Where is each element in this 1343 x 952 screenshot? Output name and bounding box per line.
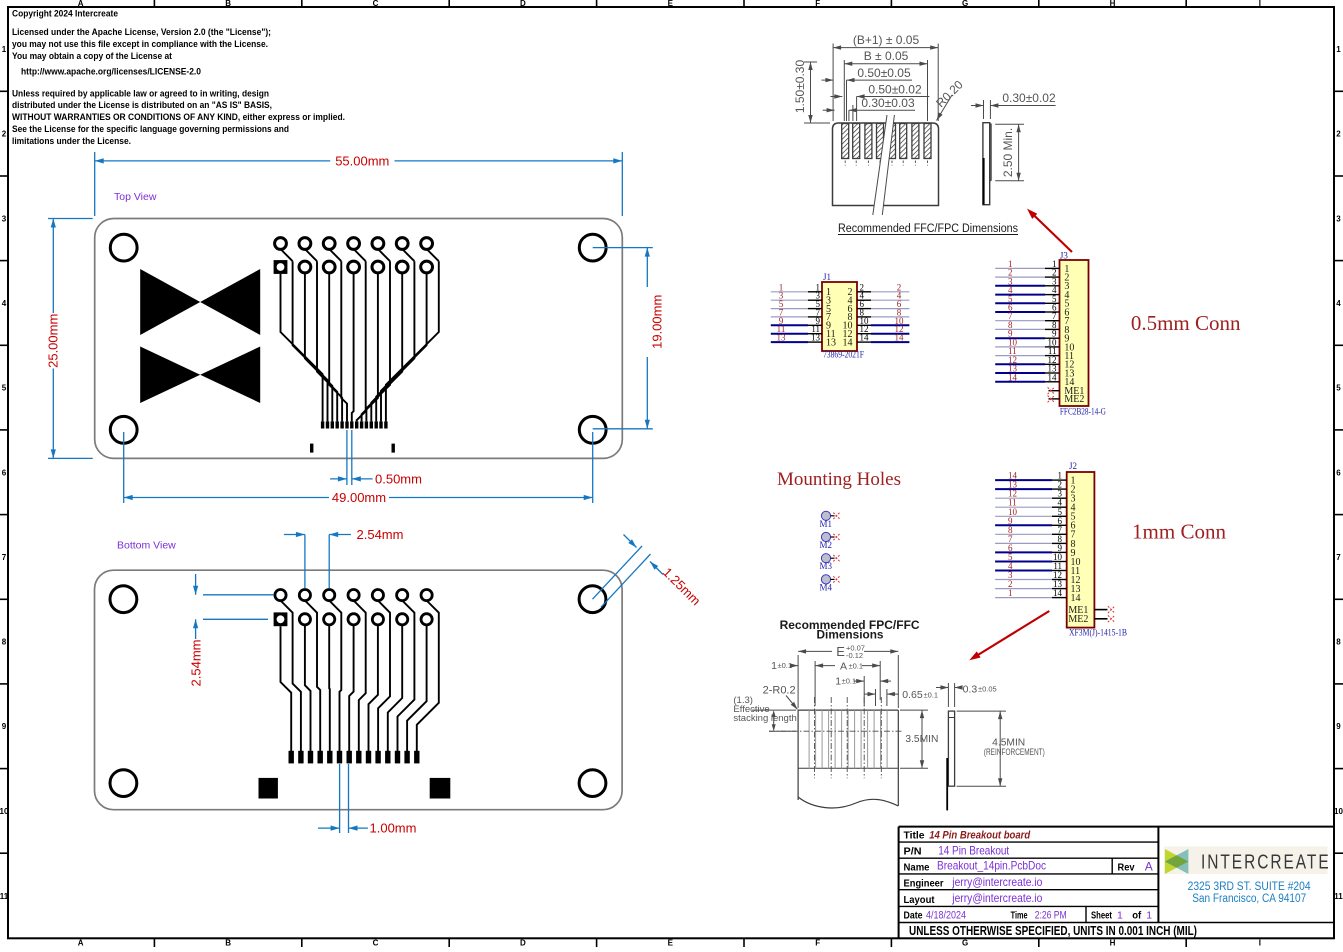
- svg-text:14: 14: [895, 333, 905, 343]
- svg-text:Engineer: Engineer: [904, 878, 944, 890]
- J2 pin 2 wire (net 13): [995, 480, 1075, 496]
- svg-text:7: 7: [2, 553, 7, 562]
- svg-text:2325 3RD ST. SUITE #204: 2325 3RD ST. SUITE #204: [1188, 881, 1312, 893]
- svg-text:2.54mm: 2.54mm: [189, 640, 204, 687]
- J2 pin ME1 (no connect): [1068, 605, 1114, 616]
- svg-text:9: 9: [2, 722, 7, 731]
- svg-text:73869-2021F: 73869-2021F: [823, 349, 864, 359]
- svg-text:1.50±0.30: 1.50±0.30: [793, 60, 807, 114]
- J2 pin 1 wire (net 14): [995, 471, 1075, 487]
- dimension 1 +/- 0.1 (second): [835, 676, 891, 707]
- svg-text:Copyright 2024 Intercreate: Copyright 2024 Intercreate: [12, 9, 118, 19]
- svg-text:11: 11: [1334, 892, 1343, 901]
- dimension 2.54mm (left, bottom view): [189, 574, 275, 686]
- svg-text:Title: Title: [904, 829, 925, 841]
- svg-text:0.3: 0.3: [963, 683, 978, 695]
- dimension 1.25mm (diagonal, bottom view): [593, 535, 704, 609]
- J1 pin 7 wire (left): [771, 307, 831, 323]
- svg-text:9: 9: [1336, 722, 1341, 731]
- dimension 0.30 +/- 0.02 (side): [971, 91, 1056, 119]
- J1 pin 1 wire (left): [771, 282, 831, 298]
- svg-text:Name: Name: [904, 861, 930, 873]
- J3 pin 12 wire: [995, 355, 1074, 371]
- svg-text:0.50±0.05: 0.50±0.05: [857, 66, 911, 80]
- J3 pin 14 wire: [995, 372, 1074, 388]
- svg-text:14: 14: [1048, 372, 1058, 382]
- dimension B +/- 0.05: [844, 49, 927, 121]
- bottom view pad row 1 (circles): [275, 590, 432, 601]
- svg-text:13: 13: [811, 333, 821, 343]
- J1 pin 4 wire (right): [848, 291, 910, 307]
- J2 pin 12 wire (net 3): [995, 570, 1080, 586]
- svg-text:(B+1) ± 0.05: (B+1) ± 0.05: [853, 33, 920, 47]
- svg-text:2: 2: [2, 130, 7, 139]
- svg-text:jerry@intercreate.io: jerry@intercreate.io: [951, 891, 1042, 905]
- svg-text:2.50 Min.: 2.50 Min.: [1001, 128, 1015, 177]
- J3 pin 8 wire: [995, 320, 1069, 336]
- svg-text:M1: M1: [820, 519, 833, 529]
- FFC hatched contact fingers: [842, 124, 931, 166]
- svg-text:INTERCREATE: INTERCREATE: [1201, 851, 1331, 874]
- mounting hole symbol M2: [820, 532, 840, 550]
- top view trace fan: [281, 249, 439, 421]
- svg-text:13: 13: [826, 337, 836, 348]
- svg-text:8: 8: [1336, 638, 1341, 647]
- svg-text:A: A: [840, 661, 847, 673]
- svg-text:(REINFORCEMENT): (REINFORCEMENT): [984, 747, 1045, 757]
- dimension R0.20: [933, 77, 966, 120]
- svg-text:G: G: [962, 939, 968, 948]
- svg-text:H: H: [1110, 939, 1116, 948]
- svg-text:Sheet: Sheet: [1091, 909, 1112, 921]
- svg-text:UNLESS OTHERWISE SPECIFIED, UN: UNLESS OTHERWISE SPECIFIED, UNITS IN 0.0…: [909, 923, 1197, 938]
- title block: P/N row: [904, 843, 1010, 857]
- bottom view board outline: [95, 570, 623, 810]
- svg-text:2.54mm: 2.54mm: [357, 527, 404, 542]
- svg-text:1: 1: [835, 676, 841, 688]
- svg-text:10: 10: [0, 807, 9, 816]
- dimension 1.50 +/- 0.30: [793, 60, 830, 123]
- intercreate address: [1188, 881, 1312, 905]
- svg-text:Dimensions: Dimensions: [817, 630, 884, 642]
- dimension 0.50mm: [330, 430, 422, 486]
- J2 pin 6 wire (net 9): [995, 516, 1075, 532]
- dimension 0.50 +/- 0.05: [822, 66, 913, 121]
- svg-text:C: C: [373, 0, 379, 8]
- top view fiducial bar right: [392, 444, 395, 453]
- dimension 2-R0.2: [763, 685, 798, 710]
- dimension 4.5MIN (REINFORCEMENT): [957, 711, 1045, 786]
- svg-text:D: D: [520, 0, 526, 8]
- J2 pin ME2 (no connect): [1068, 614, 1114, 625]
- svg-text:-0.12: -0.12: [846, 651, 863, 660]
- svg-text:1mm Conn: 1mm Conn: [1132, 520, 1226, 544]
- J1 pin 8 wire (right): [848, 307, 910, 323]
- svg-text:1: 1: [1336, 45, 1341, 54]
- svg-text:10: 10: [1334, 807, 1343, 816]
- title block: Layout row: [904, 891, 1043, 906]
- svg-text:B: B: [225, 939, 231, 948]
- J1 pin 14 wire (right): [843, 333, 910, 349]
- svg-text:E: E: [836, 644, 845, 659]
- J3 pin 1 wire: [995, 259, 1069, 275]
- svg-text:11: 11: [0, 892, 9, 901]
- svg-text:5: 5: [2, 384, 7, 393]
- svg-text:Top View: Top View: [114, 191, 157, 203]
- J2 pin 9 wire (net 6): [995, 543, 1075, 559]
- FFC side view strip: [983, 123, 991, 205]
- J3 pin 11 wire: [995, 346, 1074, 362]
- J1 pin 10 wire (right): [843, 316, 910, 332]
- J3 pin 9 wire: [995, 329, 1069, 345]
- svg-text:4/18/2024: 4/18/2024: [926, 909, 966, 921]
- top view mounting hole bottom-left: [110, 416, 137, 443]
- connector J2 symbol body: [1067, 472, 1095, 628]
- svg-text:E: E: [668, 0, 674, 8]
- svg-text:stacking length: stacking length: [733, 713, 796, 724]
- J3 pin 5 wire: [995, 294, 1069, 310]
- svg-text:Unless required by applicable: Unless required by applicable law or agr…: [12, 88, 269, 98]
- dimension 2.54mm (top, bottom view): [284, 527, 404, 589]
- svg-text:1: 1: [1008, 588, 1013, 598]
- svg-text:14: 14: [1071, 593, 1081, 604]
- svg-text:C: C: [373, 939, 379, 948]
- svg-text:2:26 PM: 2:26 PM: [1035, 909, 1067, 921]
- top view fiducial bar left: [310, 444, 313, 453]
- svg-text:5: 5: [1336, 384, 1341, 393]
- FPC drawing caption: [780, 620, 920, 642]
- svg-text:ME2: ME2: [1064, 394, 1084, 405]
- svg-text:WITHOUT WARRANTIES OR CONDITIO: WITHOUT WARRANTIES OR CONDITIONS OF ANY …: [12, 112, 345, 122]
- dimension 0.50 +/- 0.02: [830, 83, 929, 122]
- top view board outline: [95, 219, 623, 459]
- svg-text:Breakout_14pin.PcbDoc: Breakout_14pin.PcbDoc: [937, 859, 1046, 873]
- svg-text:6: 6: [2, 468, 7, 477]
- FFC drawing caption: [838, 223, 1018, 235]
- dimension 0.65 +/- 0.1: [865, 689, 939, 706]
- J1 pin 3 wire (left): [771, 291, 831, 307]
- svg-text:J1: J1: [823, 272, 831, 282]
- top view pad row 2: square pin-1 pad: [274, 260, 288, 274]
- dimension 0.30 +/- 0.03: [823, 96, 915, 121]
- svg-text:M3: M3: [820, 561, 833, 571]
- bottom view mounting hole bottom-right: [579, 770, 606, 797]
- svg-text:You may obtain a copy of the L: You may obtain a copy of the License at: [12, 51, 172, 61]
- svg-text:14: 14: [1053, 588, 1063, 598]
- svg-text:1: 1: [771, 660, 777, 672]
- dimension 1 +/- 0.1 (left): [771, 660, 798, 672]
- svg-text:3: 3: [1336, 214, 1341, 223]
- FPC conductor lines: [769, 697, 902, 778]
- svg-text:Bottom View: Bottom View: [117, 540, 176, 552]
- svg-text:M2: M2: [820, 540, 833, 550]
- J2 pin 7 wire (net 8): [995, 525, 1075, 541]
- svg-text:0.50mm: 0.50mm: [375, 471, 422, 486]
- mounting hole symbol M1: [820, 511, 840, 529]
- svg-text:14: 14: [843, 337, 853, 348]
- bottom view big square pad left: [259, 778, 278, 799]
- J2 pin 4 wire (net 11): [995, 498, 1075, 514]
- svg-text:4: 4: [2, 299, 7, 308]
- dimension 55.00mm: [95, 152, 623, 216]
- FFC cable body (top right drawing): [833, 123, 939, 206]
- dimension 1.00mm (bottom view): [318, 764, 416, 836]
- svg-text:0.30±0.03: 0.30±0.03: [861, 96, 915, 110]
- svg-text:B: B: [225, 0, 231, 8]
- svg-text:jerry@intercreate.io: jerry@intercreate.io: [951, 875, 1042, 889]
- svg-text:1: 1: [1146, 909, 1152, 921]
- svg-text:Layout: Layout: [904, 894, 935, 906]
- FPC side view strip: [947, 711, 954, 810]
- svg-text:±0.1: ±0.1: [849, 662, 864, 671]
- svg-text:1: 1: [2, 45, 7, 54]
- J2 pin 13 wire (net 2): [995, 579, 1080, 595]
- J1 pin 6 wire (right): [848, 299, 910, 315]
- svg-text:See the License for the specif: See the License for the specific languag…: [12, 124, 289, 134]
- bottom view mounting hole top-right: [579, 586, 606, 613]
- dimension 3.5MIN: [900, 710, 938, 768]
- svg-text:±0.1: ±0.1: [778, 661, 793, 670]
- intercreate logo bowtie: [1165, 849, 1189, 874]
- effective stacking length note: [733, 695, 796, 731]
- svg-text:J2: J2: [1069, 461, 1077, 471]
- bottom view mounting hole top-left: [110, 586, 137, 613]
- svg-text:3.5MIN: 3.5MIN: [905, 734, 938, 745]
- svg-text:M4: M4: [820, 582, 833, 592]
- J3 pin 6 wire: [995, 303, 1069, 319]
- title block: Title row: [904, 829, 1031, 841]
- svg-text:4: 4: [1336, 299, 1341, 308]
- svg-text:25.00mm: 25.00mm: [46, 314, 61, 368]
- svg-text:0.5mm Conn: 0.5mm Conn: [1131, 311, 1241, 335]
- J1 pin 2 wire (right): [848, 282, 910, 298]
- title block: Date row: [904, 909, 1153, 921]
- svg-text:XF3M(J)-1415-1B: XF3M(J)-1415-1B: [1069, 628, 1127, 638]
- FFC break lines: [873, 115, 895, 215]
- svg-text:B ± 0.05: B ± 0.05: [864, 49, 909, 63]
- top view pad row 2 (circles): [299, 261, 433, 273]
- svg-text:A: A: [78, 939, 84, 948]
- svg-text:Rev: Rev: [1118, 861, 1135, 873]
- svg-text:F: F: [815, 939, 820, 948]
- dimension 49.00mm: [124, 432, 593, 505]
- dimension 2.50 Min.: [995, 124, 1024, 180]
- svg-text:8: 8: [2, 638, 7, 647]
- svg-text:http://www.apache.org/licenses: http://www.apache.org/licenses/LICENSE-2…: [21, 67, 201, 77]
- svg-text:49.00mm: 49.00mm: [332, 490, 386, 505]
- title block grid: [899, 827, 1334, 939]
- svg-text:limitations under the License.: limitations under the License.: [12, 136, 131, 146]
- svg-text:0.30±0.02: 0.30±0.02: [1002, 91, 1056, 105]
- svg-text:0.50±0.02: 0.50±0.02: [868, 83, 922, 97]
- svg-text:2-R0.2: 2-R0.2: [763, 685, 796, 697]
- svg-text:San Francisco, CA 94107: San Francisco, CA 94107: [1192, 893, 1306, 905]
- bottom view pad row 2: square pin-1 pad: [274, 612, 288, 626]
- svg-text:6: 6: [1336, 468, 1341, 477]
- svg-text:Time: Time: [1011, 909, 1028, 921]
- svg-text:1: 1: [1117, 909, 1123, 921]
- bottom view big square pad right: [430, 778, 451, 799]
- connector J1 symbol body: [822, 282, 857, 351]
- svg-text:D: D: [520, 939, 526, 948]
- bottom view pad row 2 (circles): [299, 614, 432, 625]
- J1 pin 5 wire (left): [771, 299, 831, 315]
- J2 pin 11 wire (net 4): [995, 561, 1080, 577]
- J2 pin 14 wire (net 1): [995, 588, 1080, 604]
- J2 pin 3 wire (net 12): [995, 489, 1075, 505]
- J3 pin ME2 (no connect): [1048, 394, 1085, 405]
- svg-text:7: 7: [1336, 553, 1341, 562]
- svg-text:FFC2B28-14-G: FFC2B28-14-G: [1060, 407, 1106, 417]
- dimension (B+1) +/- 0.05: [833, 33, 938, 121]
- top view mounting hole top-right: [579, 234, 606, 261]
- J2 pin 5 wire (net 10): [995, 507, 1075, 523]
- FPC cable body: [798, 710, 898, 808]
- dimension E tolerance: [798, 644, 898, 709]
- svg-text:±0.05: ±0.05: [978, 685, 997, 694]
- dimension 0.3 +/- 0.05 (side): [936, 683, 997, 707]
- top view pad row 1 (circles): [275, 238, 433, 250]
- svg-text:14 Pin Breakout board: 14 Pin Breakout board: [929, 829, 1030, 841]
- intercreate logo background: [1164, 847, 1328, 875]
- red arrow to FPC drawing: [969, 611, 1049, 660]
- svg-text:14: 14: [1008, 372, 1018, 382]
- J3 pin 2 wire: [995, 268, 1069, 284]
- svg-text:14 Pin Breakout: 14 Pin Breakout: [938, 843, 1010, 857]
- svg-text:P/N: P/N: [904, 845, 922, 857]
- J3 pin 7 wire: [995, 311, 1069, 327]
- svg-text:distributed under the License: distributed under the License is distrib…: [12, 100, 272, 110]
- red arrow to FFC drawing: [1027, 209, 1072, 252]
- mounting hole symbol M3: [820, 554, 840, 572]
- svg-text:of: of: [1132, 909, 1141, 921]
- top view mounting hole top-left: [110, 234, 137, 261]
- svg-text:1.00mm: 1.00mm: [370, 821, 417, 836]
- J2 pin 8 wire (net 7): [995, 534, 1075, 550]
- svg-text:55.00mm: 55.00mm: [335, 153, 389, 168]
- title block: Name row: [904, 859, 1153, 874]
- license text block: [12, 9, 345, 146]
- svg-text:0.65: 0.65: [902, 689, 923, 701]
- svg-text:A: A: [78, 0, 84, 8]
- svg-text:G: G: [962, 0, 968, 8]
- svg-text:E: E: [668, 939, 674, 948]
- svg-text:F: F: [815, 0, 820, 8]
- J1 pin 11 wire (left): [771, 324, 836, 340]
- J2 pin 10 wire (net 5): [995, 552, 1080, 568]
- dimension 19.00mm: [593, 248, 665, 429]
- J3 pin 3 wire: [995, 276, 1069, 292]
- svg-text:A: A: [1145, 859, 1153, 873]
- svg-text:±0.1: ±0.1: [924, 690, 939, 699]
- J3 pin 13 wire: [995, 364, 1074, 380]
- J1 pin 13 wire (left): [771, 333, 836, 349]
- svg-text:Licensed under the Apache Lice: Licensed under the Apache License, Versi…: [12, 27, 271, 37]
- mounting hole symbol M4: [820, 575, 840, 593]
- svg-text:3: 3: [2, 214, 7, 223]
- dimension A +/- 0.1: [815, 661, 880, 707]
- svg-text:19.00mm: 19.00mm: [650, 295, 665, 349]
- svg-text:I: I: [1259, 939, 1261, 948]
- svg-text:you may not use this file exce: you may not use this file except in comp…: [12, 39, 268, 49]
- J3 pin ME1 (no connect): [1048, 386, 1085, 397]
- J3 pin 4 wire: [995, 285, 1069, 301]
- svg-text:2: 2: [1336, 130, 1341, 139]
- svg-text:H: H: [1110, 0, 1116, 8]
- svg-text:I: I: [1259, 0, 1261, 8]
- J1 pin 9 wire (left): [771, 316, 831, 332]
- title block: Engineer row: [904, 875, 1043, 890]
- bottom view trace fan: [281, 601, 439, 752]
- svg-text:ME2: ME2: [1068, 614, 1088, 625]
- connector J3 symbol body: [1060, 260, 1089, 406]
- svg-text:13: 13: [777, 333, 787, 343]
- svg-text:Recommended FFC/FPC Dimensions: Recommended FFC/FPC Dimensions: [838, 223, 1018, 235]
- svg-text:Mounting Holes: Mounting Holes: [777, 469, 901, 490]
- svg-text:Date: Date: [904, 909, 923, 921]
- dimension 25.00mm: [46, 219, 93, 459]
- top view logo (black bowtie pair): [140, 269, 260, 403]
- J1 pin 12 wire (right): [843, 324, 910, 340]
- J3 pin 10 wire: [995, 337, 1074, 353]
- top view mounting hole bottom-right: [579, 416, 606, 443]
- bottom view mounting hole bottom-left: [110, 770, 137, 797]
- svg-text:14: 14: [860, 333, 870, 343]
